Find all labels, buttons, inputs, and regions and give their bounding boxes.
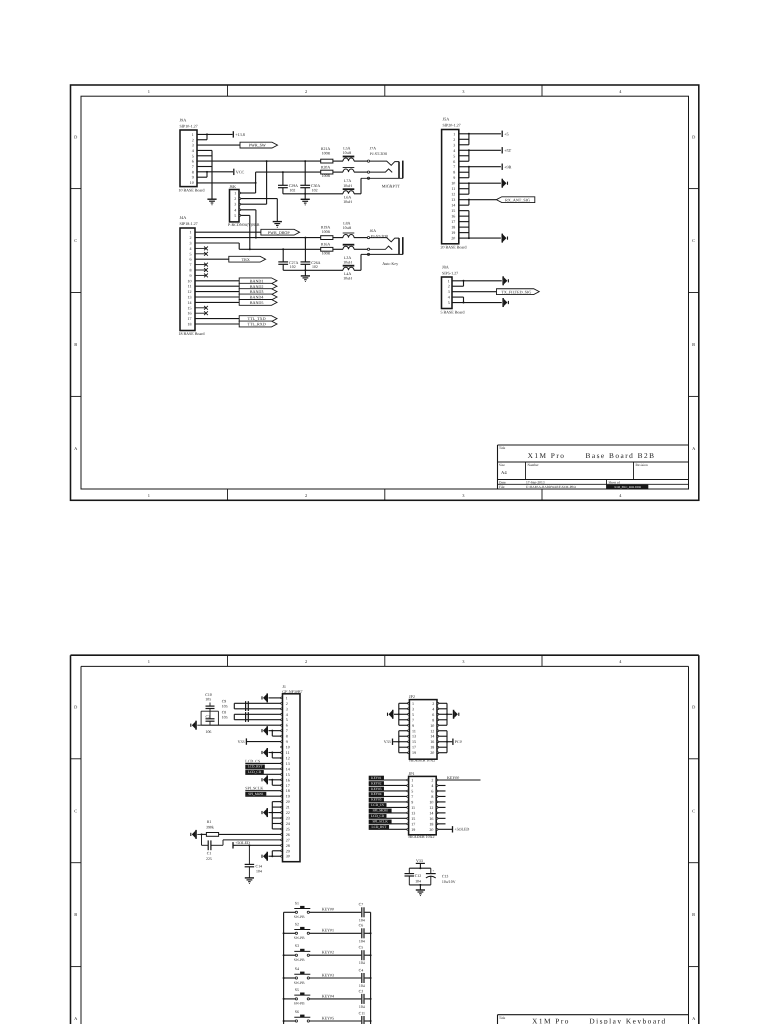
svg-text:3: 3 [453,142,455,147]
svg-text:23: 23 [286,816,290,821]
wire R21A to L5A [333,160,343,162]
svg-text:2: 2 [192,137,194,142]
svg-text:LCD_RST: LCD_RST [372,825,388,829]
resistor R1 390k [201,820,281,836]
svg-text:6: 6 [190,257,192,262]
svg-text:R1: R1 [207,820,212,824]
svg-text:+: + [432,869,434,873]
svg-text:7: 7 [412,717,414,722]
stub JP1 pin14 [438,812,446,814]
power ground [502,179,508,188]
stub JP1 pin10 [438,801,446,803]
svg-text:1: 1 [411,778,413,783]
svg-text:+5OLED: +5OLED [235,840,250,845]
svg-text:X1M Pro: X1M Pro [528,451,566,460]
svg-text:TRX: TRX [242,257,250,262]
svg-text:2: 2 [305,493,307,498]
svg-text:4: 4 [234,207,236,212]
svg-text:KEY03: KEY03 [371,787,382,791]
svg-text:1: 1 [192,132,194,137]
svg-text:Display Keyboard: Display Keyboard [589,1016,666,1024]
svg-text:10: 10 [451,181,455,186]
svg-text:SIP20-1.27: SIP20-1.27 [443,123,461,128]
wire JP1 pin9 KEY05 [369,798,407,802]
power VCC [234,169,245,175]
svg-text:18 BASE Board: 18 BASE Board [179,331,205,336]
svg-text:J6A: J6A [370,229,376,233]
svg-text:3: 3 [448,289,450,294]
svg-text:10uH: 10uH [343,277,352,281]
svg-text:5: 5 [190,251,192,256]
svg-text:1: 1 [453,131,455,136]
svg-text:19: 19 [286,794,290,799]
svg-text:C27A: C27A [289,261,298,265]
svg-text:P-RCDN04(Y)B5R: P-RCDN04(Y)B5R [228,222,260,227]
svg-text:11: 11 [412,728,416,733]
ground [301,276,310,282]
svg-text:27: 27 [286,837,290,842]
junction [304,237,306,239]
svg-text:1: 1 [412,701,414,706]
svg-text:RX_ANT_SIG: RX_ANT_SIG [505,197,530,202]
capacitor C8 105 [222,711,281,722]
wire JP1 pin13 SPI_MOSI [369,809,407,813]
capacitor C10 105 [205,693,214,711]
svg-text:26: 26 [286,832,290,837]
wire J4A pin6 to TRX [195,258,229,260]
connector J9A SIP10-1.27 [179,118,205,193]
svg-text:KEY04: KEY04 [371,792,382,796]
svg-text:MIC&PTT: MIC&PTT [382,183,401,188]
svg-text:6: 6 [431,788,433,793]
svg-text:C2: C2 [206,715,211,719]
svg-text:TX_FILTED_SIG: TX_FILTED_SIG [501,289,531,294]
svg-text:Title: Title [499,1016,506,1020]
svg-text:3: 3 [192,143,194,148]
switch S1 SW-PB [284,901,311,919]
svg-text:Revision: Revision [636,463,648,467]
junction [304,269,306,271]
svg-text:C: C [74,808,77,813]
svg-text:Date:: Date: [499,480,506,484]
svg-text:3: 3 [411,783,413,788]
svg-text:1: 1 [148,659,150,664]
capacitor C13 10u/10V [426,869,456,884]
svg-text:D: D [692,134,695,139]
resistor R20A 100R [321,165,333,178]
svg-text:LCD_CD: LCD_CD [371,814,385,818]
svg-text:4: 4 [448,295,450,300]
svg-text:KEY01: KEY01 [371,776,382,780]
svg-text:BAND1: BAND1 [250,278,264,283]
svg-text:17: 17 [188,316,192,321]
wire JP1 pin2 KEY00 [438,775,481,780]
connector JP1 HEADER 10X2 [407,771,438,839]
svg-text:PC0: PC0 [455,739,462,744]
svg-text:4: 4 [431,783,433,788]
svg-text:18: 18 [451,225,455,230]
power +5T [502,147,511,153]
stub JP1 pin8 [438,795,446,797]
wire J5A pins 10-12 to ground [459,182,501,194]
svg-text:V33: V33 [238,739,245,744]
wire J1 pin28 +5OLED [234,844,281,846]
wire rail to ground [304,270,306,275]
wire J1 pin13 LCD_CS [245,758,280,763]
svg-text:S6: S6 [295,1010,299,1014]
capacitor C4 104 [359,968,365,988]
wire J8A pins 4,5 to ground [452,297,502,303]
svg-text:Auto Key: Auto Key [382,261,399,266]
svg-text:L4A: L4A [344,272,351,276]
svg-text:15: 15 [411,816,415,821]
svg-text:SPI_SCLK: SPI_SCLK [245,786,263,791]
svg-text:SW-PB: SW-PB [294,915,305,919]
svg-text:6: 6 [286,723,288,728]
svg-text:J9A: J9A [180,118,187,123]
svg-text:18: 18 [429,821,433,826]
svg-text:9: 9 [192,175,194,180]
wire J9A pin6 net to R21A [197,160,321,162]
svg-text:9: 9 [453,175,455,180]
svg-text:100R: 100R [322,251,331,255]
svg-text:8: 8 [192,169,194,174]
sheet entry TX_FILTED_SIG [497,289,540,295]
svg-text:14: 14 [429,810,433,815]
svg-text:20: 20 [430,750,434,755]
svg-text:3: 3 [286,706,288,711]
svg-text:+9R: +9R [504,164,511,169]
ground [207,199,216,205]
connector JP2 HEADER 10X2 [408,694,439,762]
svg-text:BAND3: BAND3 [250,289,264,294]
svg-text:2: 2 [286,701,288,706]
capacitor C11 104 [359,1011,365,1029]
sheet entry BAND5 [239,300,277,306]
ground [301,199,310,205]
wire J9A pins 1,2 to +13.8 [197,133,233,139]
svg-text:2: 2 [448,284,450,289]
power ground [502,234,508,243]
junction [266,160,268,162]
svg-text:1: 1 [234,191,236,196]
svg-text:17-Sep-2013: 17-Sep-2013 [526,480,545,484]
svg-text:11: 11 [451,186,455,191]
svg-text:S5: S5 [295,988,299,992]
svg-text:3: 3 [190,241,192,246]
svg-text:1: 1 [286,695,288,700]
svg-text:8: 8 [286,734,288,739]
connector J6K P-RCDN04(Y)B5R [228,184,260,227]
svg-text:C13: C13 [442,875,449,879]
svg-text:22: 22 [286,810,290,815]
svg-text:HEADER 10X2: HEADER 10X2 [408,834,434,839]
svg-text:D: D [74,705,77,710]
svg-text:SIP5-1.27: SIP5-1.27 [442,270,458,275]
sheet entry TTL_TXD [239,316,277,322]
svg-text:12: 12 [188,289,192,294]
power ground [262,748,268,757]
svg-text:13: 13 [188,295,192,300]
svg-text:SPI_MOSI: SPI_MOSI [248,792,264,796]
wire J4A pin17 to TTL_TXD [195,318,239,320]
svg-text:2: 2 [305,89,307,94]
svg-text:C1: C1 [207,852,212,856]
connector J5A SIP20-1.27 [441,117,467,250]
wire J5A pins 7-9 to +9R [459,166,501,178]
svg-text:3: 3 [412,706,414,711]
sheet entry PWR_SW [240,142,278,148]
wire J1 pin19 SPI_MOSI [245,792,280,796]
svg-text:11: 11 [411,805,415,810]
svg-text:C26A: C26A [311,261,320,265]
svg-text:L3A: L3A [344,256,351,260]
svg-text:SW-PB: SW-PB [294,936,305,940]
svg-text:1: 1 [148,493,150,498]
wire JP2 odd pins 1-9 to ground [394,703,408,725]
sheet entry BAND3 [239,289,277,295]
svg-text:SW-PB: SW-PB [294,981,305,985]
svg-text:10uH: 10uH [343,184,352,188]
svg-text:104: 104 [359,918,365,922]
svg-text:TTL_RXD: TTL_RXD [247,322,265,327]
wire R16A to L3A [333,248,343,250]
inductor L5A 10uH [343,147,355,162]
svg-text:104: 104 [359,961,365,965]
wire J1 pin9 to V33 [247,741,281,743]
wire J9A pin10 to node [197,182,256,184]
svg-text:19: 19 [411,827,415,832]
no connect J4A pin15 [195,306,208,310]
wire J4A pin14 to BAND5 [195,301,239,303]
svg-text:390k: 390k [206,825,214,829]
svg-text:4: 4 [192,148,194,153]
svg-text:5 BASE Board: 5 BASE Board [441,309,465,314]
svg-text:KEY04: KEY04 [322,993,334,998]
switch S5 SW-PB [284,988,311,1006]
svg-text:VCC: VCC [236,169,245,174]
wire JP2 odd pins 11-19 to V33 [393,731,408,753]
power PC0 [453,739,462,745]
svg-text:2: 2 [431,778,433,783]
svg-text:C5: C5 [359,946,364,950]
svg-text:LCD_CD: LCD_CD [248,770,262,774]
wire cap rail to L6A [283,193,343,195]
svg-text:KEY05: KEY05 [322,1015,334,1020]
wire J4A pin2 to R19A [195,237,321,239]
svg-text:1: 1 [448,278,450,283]
svg-text:KEY00: KEY00 [322,907,334,912]
wire J5A pins 13,14 to RX_ANT_SIG [459,199,497,205]
capacitor C9 105 [222,700,281,711]
svg-text:14: 14 [430,734,434,739]
svg-text:8: 8 [432,717,434,722]
svg-text:1: 1 [190,230,192,235]
svg-text:105: 105 [205,698,211,702]
svg-text:12: 12 [429,805,433,810]
svg-text:100R: 100R [322,151,331,155]
svg-text:21: 21 [286,805,290,810]
svg-text:18: 18 [286,788,290,793]
wire J4A pin12 to BAND3 [195,291,239,293]
svg-text:16: 16 [429,816,433,821]
sheet entry TRX [229,256,266,262]
svg-text:V33: V33 [416,858,423,863]
capacitor C12 104 [405,874,422,884]
svg-text:C29A: C29A [289,184,298,188]
svg-text:7: 7 [286,728,288,733]
svg-text:L8A: L8A [343,222,350,226]
svg-text:C: C [692,808,695,813]
wire J5A pins 4-6 to +5T [459,149,501,161]
svg-text:C4: C4 [359,968,364,972]
svg-text:J7A: J7A [370,147,376,151]
svg-text:104: 104 [359,939,365,943]
svg-text:10uH: 10uH [343,200,352,204]
wire J5A pins 15-20 to ground [459,211,501,239]
junction [255,182,257,184]
svg-text:2: 2 [305,659,307,664]
svg-text:C12: C12 [415,874,422,878]
svg-text:5: 5 [192,153,194,158]
svg-text:18: 18 [430,745,434,750]
wire KEY04 row [309,993,370,999]
stub JP1 pin4 [438,784,446,786]
wire J4A pin1 to PWR_DROP [195,231,261,233]
svg-text:10: 10 [188,278,192,283]
svg-text:11: 11 [188,284,192,289]
sheet entry PWR_DROP [261,229,300,235]
svg-text:PWR_SW: PWR_SW [249,143,266,148]
svg-text:X1M Pro: X1M Pro [532,1016,570,1024]
sheet entry BAND4 [239,294,277,300]
svg-text:104: 104 [359,984,365,988]
svg-text:102: 102 [290,265,296,269]
svg-text:+13.8: +13.8 [235,132,245,137]
svg-text:+5T: +5T [504,148,511,153]
svg-text:L5A: L5A [343,147,350,151]
wire JP1 pin7 KEY04 [369,792,407,796]
wire JP1 pin11 LCD_CS [369,803,407,807]
junction [304,160,306,162]
wire J6K pin3 to pin6 net [241,161,267,204]
svg-text:102: 102 [312,189,318,193]
capacitor C29A 102 [278,172,298,194]
svg-text:4: 4 [286,712,288,717]
svg-text:JP1: JP1 [409,771,415,776]
wire J9A pin3 to PWR_SW [197,144,240,146]
inductor L8A 10uH [343,222,355,238]
switch S6 SW-PB [284,1010,311,1028]
svg-text:9: 9 [412,723,414,728]
svg-text:C7: C7 [359,903,364,907]
svg-text:SPI_SCLK: SPI_SCLK [373,820,389,824]
svg-text:105: 105 [222,704,228,708]
wire J1 pin1 to ground [269,697,281,699]
svg-text:L7A: L7A [344,179,351,183]
wire J1 pin15 LCD_CD [245,770,280,774]
svg-text:15: 15 [286,772,290,777]
svg-text:15: 15 [451,208,455,213]
power ground [502,298,508,307]
junction [255,237,257,239]
power V33 [416,858,425,868]
svg-text:+5OLED: +5OLED [454,827,469,832]
svg-text:4: 4 [432,706,434,711]
svg-text:8: 8 [453,170,455,175]
wire KEY01 row [309,928,370,934]
wire key matrix left rail [283,912,285,1024]
svg-text:D: D [74,134,77,139]
wire J1 pins 11,12 to ground [269,752,281,758]
svg-text:5: 5 [412,712,414,717]
svg-text:16: 16 [451,214,455,219]
svg-text:SW-PB: SW-PB [294,958,305,962]
svg-text:R20A: R20A [321,165,330,169]
wire R19A to L8A [333,237,343,239]
wire J4A pin11 to BAND2 [195,285,239,287]
svg-text:KEY02: KEY02 [371,781,382,785]
svg-text:14: 14 [451,203,455,208]
switch S3 SW-PB [284,944,311,962]
power +5OLED [453,826,470,832]
no connect J4A pin7 [195,263,208,267]
svg-text:17: 17 [411,821,415,826]
wire J1 pin18 SPI_SCLK [245,786,280,791]
power +9R [502,164,511,170]
wire J1 pins 16,17 to ground [269,779,281,785]
wire KEY00 row [309,907,370,913]
svg-text:17: 17 [451,219,455,224]
svg-text:J1: J1 [282,684,286,689]
power ground [262,726,268,735]
wire J6K pin4 to R19A row [241,210,256,238]
junction [249,248,251,250]
capacitor C1 225 [202,834,281,861]
wire cap rail to L4A [283,269,343,271]
wire JP1 pin15 LCD_CD [369,814,407,818]
svg-text:10uH: 10uH [343,151,352,155]
wire J6K pin5 to R16A row [241,215,250,249]
switch S4 SW-PB [284,967,311,985]
svg-text:5: 5 [286,717,288,722]
power ground [388,710,394,719]
power ground [262,808,268,817]
svg-text:15: 15 [412,739,416,744]
svg-text:29: 29 [286,848,290,853]
stub JP1 pin6 [438,790,446,792]
svg-text:TTL_TXD: TTL_TXD [248,316,266,321]
svg-text:16: 16 [286,777,290,782]
wire JP1 pin17 SPI_SCLK [369,820,407,824]
svg-text:7: 7 [411,794,413,799]
wire L6A to jack sleeve [354,178,361,194]
wire J1 pins 7,8 to ground [269,730,281,736]
svg-text:A4: A4 [501,470,507,475]
svg-text:2: 2 [432,701,434,706]
svg-text:19: 19 [451,230,455,235]
svg-text:6: 6 [453,159,455,164]
wire JP2 even pins 2-10 to ground [439,703,453,725]
svg-text:16: 16 [430,739,434,744]
svg-text:S3: S3 [295,944,299,948]
svg-text:24: 24 [286,821,290,826]
power ground [191,830,202,839]
svg-text:5: 5 [448,300,450,305]
svg-text:C: C [692,238,695,243]
sheet entry BAND2 [239,283,277,289]
svg-text:10 BASE Board: 10 BASE Board [179,188,205,193]
